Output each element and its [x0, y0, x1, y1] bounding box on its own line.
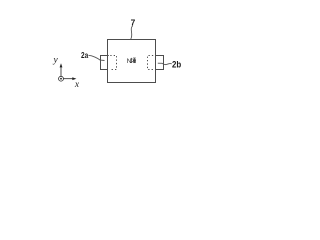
magnet 2a box: solid outer part [101, 56, 109, 70]
svg-text:y: y [52, 56, 58, 66]
leader line from 7 to top edge [131, 26, 133, 40]
svg-text:7: 7 [131, 18, 136, 28]
magnet 2b box: solid outer part [156, 56, 164, 70]
text N pole (kanji kyoku, hand drawn) [131, 58, 137, 63]
body rectangle 7 [108, 40, 156, 83]
svg-text:x: x [74, 80, 80, 90]
coordinate axes [52, 56, 79, 90]
leader line from 2a into box [89, 55, 105, 60]
svg-text:2a: 2a [81, 51, 89, 60]
x axis arrowhead [72, 77, 76, 80]
x axis line [64, 78, 73, 80]
magnet 2b box: dotted inner part [148, 56, 154, 70]
y axis arrowhead [60, 63, 63, 67]
origin circle with dot (z axis) [59, 76, 64, 81]
leader line from 2b into box [158, 63, 172, 64]
svg-text:2b: 2b [172, 60, 182, 70]
magnet 2a box: dotted inner part [110, 56, 117, 70]
y axis line [60, 67, 62, 76]
